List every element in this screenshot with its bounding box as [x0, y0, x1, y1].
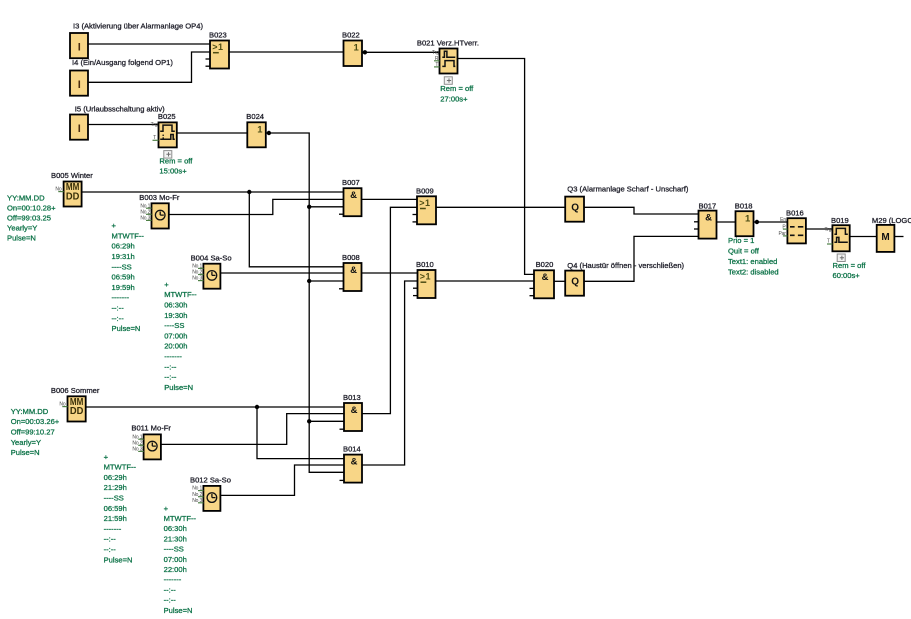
wire B019 output to M29 input — [850, 236, 877, 238]
svg-text:I4 (Ein/Ausgang folgend OP1): I4 (Ein/Ausgang folgend OP1) — [72, 58, 173, 67]
svg-text:&: & — [705, 212, 712, 223]
svg-text:19:31h: 19:31h — [112, 252, 135, 261]
svg-text:Off=99:03.25: Off=99:03.25 — [7, 213, 51, 222]
svg-text:B011 Mo-Fr: B011 Mo-Fr — [131, 424, 171, 433]
wire B016 output to B019 Trg — [806, 228, 833, 230]
svg-text:--:--: --:-- — [112, 304, 125, 313]
svg-text:B016: B016 — [786, 209, 804, 218]
svg-text:Trg: Trg — [825, 227, 832, 233]
svg-text:Rem = off: Rem = off — [833, 261, 867, 270]
wire B008 output to B010 input 1 — [362, 272, 418, 274]
junction B024 net / B013 input 3 — [307, 419, 311, 423]
svg-text:B025: B025 — [158, 112, 176, 121]
svg-text:21:30h: 21:30h — [164, 534, 187, 543]
svg-text:B018: B018 — [735, 201, 753, 210]
svg-text:B024: B024 — [246, 112, 264, 121]
svg-text:06:59h: 06:59h — [104, 504, 127, 513]
svg-text:+: + — [164, 504, 169, 513]
junction B005 net branch — [247, 190, 251, 194]
junction B024 net / B007 input 3 — [307, 205, 311, 209]
svg-text:&: & — [350, 190, 357, 201]
svg-text:+: + — [104, 452, 109, 461]
svg-text:15:00s+: 15:00s+ — [159, 167, 187, 176]
wire B010 output to B020 input 2 — [436, 280, 535, 282]
wire branch B005 net down to B008 input 1 — [249, 192, 343, 267]
svg-text:>1: >1 — [212, 42, 223, 52]
svg-text:B013: B013 — [343, 393, 361, 402]
svg-text:I: I — [78, 123, 81, 135]
svg-text:-------: ------- — [104, 524, 122, 533]
svg-text:&: & — [542, 272, 549, 283]
svg-text:1: 1 — [257, 124, 263, 135]
svg-text:Pulse=N: Pulse=N — [164, 606, 193, 615]
wire B005 Winter output to B007 input 1 — [82, 191, 344, 193]
wire branch B024 net to B013 input 3 — [309, 420, 344, 422]
wire I4 to B023 input 2 — [88, 52, 210, 82]
svg-text:--:--: --:-- — [104, 545, 117, 554]
svg-text:Q3 (Alarmanlage Scharf - Unsch: Q3 (Alarmanlage Scharf - Unscharf) — [567, 185, 689, 194]
svg-text:Q: Q — [571, 277, 579, 288]
svg-text:I3 (Aktivierung über Alarmanla: I3 (Aktivierung über Alarmanlage OP4) — [73, 21, 203, 30]
svg-text:----SS: ----SS — [104, 494, 124, 503]
junction dot at B024 output — [267, 131, 271, 135]
svg-text:--:--: --:-- — [164, 596, 177, 605]
svg-text:>1: >1 — [420, 272, 431, 282]
junction dot at B018 output — [755, 220, 759, 224]
svg-text:-------: ------- — [112, 293, 130, 302]
svg-text:Yearly=Y: Yearly=Y — [11, 438, 41, 447]
svg-text:--:--: --:-- — [104, 535, 117, 544]
svg-text:MTWTF--: MTWTF-- — [112, 231, 145, 240]
svg-text:07:00h: 07:00h — [164, 555, 187, 564]
svg-text:Rem = off: Rem = off — [159, 156, 193, 165]
wire B013 output up to B009 input 2 — [362, 207, 417, 413]
svg-text:07:00h: 07:00h — [164, 331, 187, 340]
svg-text:Quit = off: Quit = off — [728, 246, 760, 255]
wire branch B024 net to B008 input 3 — [309, 280, 343, 282]
svg-text:----SS: ----SS — [112, 262, 132, 271]
junction dot at B022 output — [363, 50, 367, 54]
svg-text:B007: B007 — [342, 178, 360, 187]
svg-text:Off=99:10.27: Off=99:10.27 — [11, 428, 55, 437]
wire B003 output to B007 input 2 — [169, 199, 344, 214]
svg-text:06:59h: 06:59h — [112, 273, 135, 282]
svg-text:MTWTF--: MTWTF-- — [164, 290, 197, 299]
svg-text:06:30h: 06:30h — [164, 301, 187, 310]
svg-text:Trg: Trg — [151, 122, 158, 128]
parameter box icon of B025 — [164, 151, 172, 159]
wire B007 output to B009 input 1 — [362, 198, 418, 200]
svg-text:YY:MM.DD: YY:MM.DD — [11, 407, 49, 416]
wire B017 output to B018 input — [717, 221, 736, 223]
svg-text:27:00s+: 27:00s+ — [440, 95, 468, 104]
svg-text:M: M — [881, 232, 889, 243]
svg-text:B010: B010 — [416, 260, 434, 269]
wire B024 output net vertical trunk to B014 input 3 — [266, 133, 344, 472]
svg-text:19:59h: 19:59h — [112, 283, 135, 292]
wire B022 output to B021 Trg — [362, 51, 440, 53]
svg-text:Pulse=N: Pulse=N — [164, 383, 193, 392]
svg-text:B014: B014 — [343, 445, 361, 454]
svg-text:--:--: --:-- — [164, 585, 177, 594]
svg-text:MTWTF--: MTWTF-- — [104, 463, 137, 472]
svg-text:B017: B017 — [699, 201, 717, 210]
svg-text:-------: ------- — [164, 352, 182, 361]
wire B009 output to Q3 input — [436, 206, 565, 208]
svg-text:I5 (Urlaubsschaltung aktiv): I5 (Urlaubsschaltung aktiv) — [75, 105, 165, 114]
svg-text:--:--: --:-- — [112, 314, 125, 323]
svg-text:-------: ------- — [164, 575, 182, 584]
junction B006 net branch — [255, 405, 259, 409]
svg-text:22:00h: 22:00h — [164, 565, 187, 574]
svg-text:M29 (LOGO: M29 (LOGO — [872, 216, 911, 225]
svg-text:--:--: --:-- — [164, 362, 177, 371]
svg-text:1: 1 — [745, 213, 751, 224]
svg-text:21:29h: 21:29h — [104, 483, 127, 492]
wire B021 output to B020 input 1 — [458, 59, 535, 275]
svg-text:Q4 (Haustür öffnen - verschlie: Q4 (Haustür öffnen - verschließen) — [567, 261, 684, 270]
wire B011 output to B013 input 2 — [161, 414, 344, 445]
svg-text:I: I — [78, 42, 81, 54]
svg-text:Pulse=N: Pulse=N — [11, 448, 40, 457]
svg-text:B006 Sommer: B006 Sommer — [51, 386, 100, 395]
svg-text:B008: B008 — [342, 253, 360, 262]
wire B023 output to B022 input — [229, 51, 344, 53]
svg-text:&: & — [351, 405, 358, 416]
svg-text:DD: DD — [66, 190, 80, 202]
svg-text:20:00h: 20:00h — [164, 342, 187, 351]
svg-text:YY:MM.DD: YY:MM.DD — [7, 193, 45, 202]
wire Q3 net to B017 input 1 — [584, 207, 699, 214]
svg-text:Text2: disabled: Text2: disabled — [728, 268, 779, 277]
svg-text:On=00:03.26+: On=00:03.26+ — [11, 417, 60, 426]
svg-text:Rem = off: Rem = off — [440, 84, 474, 93]
wire B012 output to B014 input 2 — [220, 465, 344, 495]
wire B020 output to Q4 input — [554, 280, 565, 282]
svg-text:----SS: ----SS — [164, 545, 184, 554]
parameter box icon of B021 — [444, 77, 452, 85]
svg-text:&: & — [351, 456, 358, 467]
wire branch B024 net to B007 input 3 — [309, 206, 343, 208]
svg-text:B023: B023 — [209, 30, 227, 39]
svg-text:>1: >1 — [419, 198, 430, 208]
svg-text:21:59h: 21:59h — [104, 514, 127, 523]
svg-text:B020: B020 — [536, 260, 554, 269]
svg-text:06:30h: 06:30h — [164, 524, 187, 533]
svg-text:Text1: enabled: Text1: enabled — [728, 257, 777, 266]
svg-text:B004 Sa-So: B004 Sa-So — [191, 254, 232, 263]
wire B006 Sommer output to B013 input 1 — [86, 406, 344, 408]
svg-text:B022: B022 — [342, 30, 360, 39]
svg-text:1: 1 — [354, 43, 360, 54]
svg-text:Q: Q — [571, 203, 579, 214]
svg-text:B009: B009 — [416, 187, 434, 196]
svg-text:--:--: --:-- — [164, 373, 177, 382]
svg-text:DD: DD — [70, 405, 84, 417]
wire Q4 net to B017 input 4 — [584, 236, 699, 281]
parameter box icon of B019 — [837, 254, 845, 262]
svg-text:On=00:10.28+: On=00:10.28+ — [7, 203, 56, 212]
svg-text:06:29h: 06:29h — [104, 473, 127, 482]
svg-text:06:29h: 06:29h — [112, 242, 135, 251]
wire branch B006 net down to B014 input 1 — [257, 407, 344, 459]
svg-text:B005 Winter: B005 Winter — [51, 171, 93, 180]
wire I5 to B025 Trg — [88, 124, 159, 126]
svg-text:Pulse=N: Pulse=N — [112, 324, 141, 333]
svg-text:19:30h: 19:30h — [164, 311, 187, 320]
svg-text:60:00s+: 60:00s+ — [833, 271, 861, 280]
svg-text:En: En — [780, 217, 786, 223]
svg-text:I: I — [78, 79, 81, 91]
svg-text:+: + — [164, 280, 169, 289]
svg-text:B019: B019 — [831, 216, 849, 225]
svg-text:Pulse=N: Pulse=N — [104, 555, 133, 564]
svg-text:B003 Mo-Fr: B003 Mo-Fr — [139, 193, 180, 202]
svg-text:----SS: ----SS — [164, 321, 184, 330]
svg-text:Pulse=N: Pulse=N — [7, 233, 36, 242]
wire M29 output stub — [894, 236, 903, 238]
svg-text:&: & — [350, 265, 357, 276]
wire B014 output up to B010 input 2 — [362, 281, 418, 465]
svg-text:Yearly=Y: Yearly=Y — [7, 223, 37, 232]
svg-text:B012 Sa-So: B012 Sa-So — [190, 476, 231, 485]
svg-text:Prio = 1: Prio = 1 — [728, 236, 754, 245]
svg-text:+: + — [112, 221, 117, 230]
wire I3 to B023 input 1 — [88, 43, 210, 45]
junction B024 net / B008 input 3 — [307, 279, 311, 283]
wire B018 output to B016 En — [754, 221, 788, 223]
wire B025 output to B024 input — [177, 132, 248, 134]
svg-text:MTWTF--: MTWTF-- — [164, 514, 197, 523]
wire B004 output to B008 input 2 — [220, 272, 343, 274]
svg-text:B021 Verz.HTverr.: B021 Verz.HTverr. — [417, 38, 479, 47]
